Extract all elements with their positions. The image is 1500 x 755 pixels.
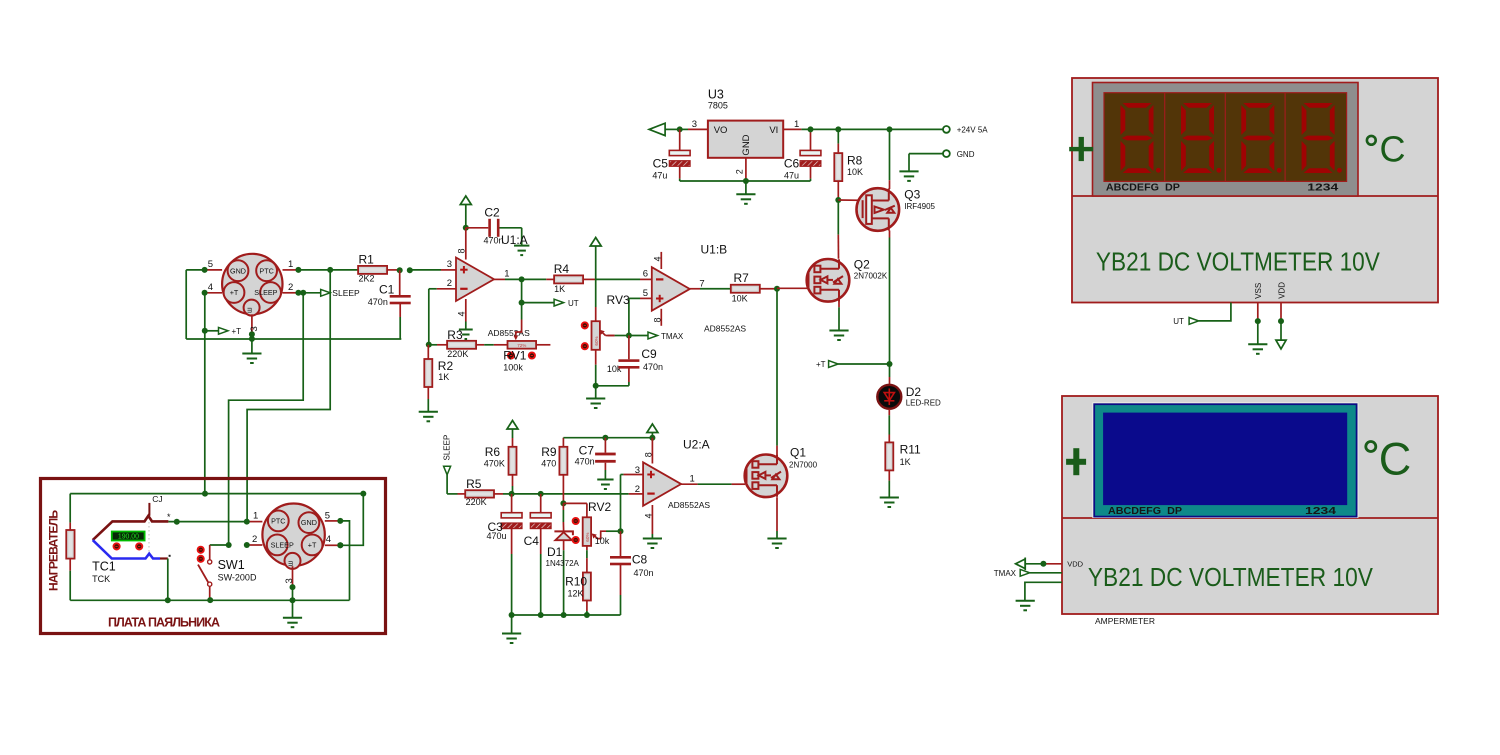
svg-text:GND: GND — [741, 134, 752, 155]
wire TC1 plus to connector pin1 — [168, 519, 246, 525]
svg-text:4: 4 — [457, 311, 467, 316]
svg-text:*: * — [167, 512, 171, 522]
potentiometer RV1 — [494, 303, 551, 373]
svg-text:SLEEP: SLEEP — [254, 288, 277, 297]
connector J2 (5-pin DIN on board) — [226, 504, 344, 591]
ground near GND terminal — [899, 171, 918, 181]
svg-text:3: 3 — [284, 578, 295, 583]
switch SW1 SW-200D — [198, 545, 257, 599]
svg-text:VSS: VSS — [1254, 283, 1263, 299]
svg-text:SW-200D: SW-200D — [218, 573, 257, 583]
wire pin5 to left loop — [186, 270, 204, 339]
svg-text:470u: 470u — [487, 531, 507, 541]
svg-text:C2: C2 — [484, 206, 500, 220]
svg-text:RV1: RV1 — [503, 349, 526, 363]
ground wire voltmeter 2 — [1016, 582, 1062, 610]
label YB21 DC VOLTMETER 10V (2) — [1088, 562, 1374, 592]
ground at C2 — [514, 228, 529, 255]
svg-text:TMAX: TMAX — [994, 569, 1017, 578]
label AMPERMETER — [1095, 616, 1155, 626]
svg-text:60%: 60% — [585, 532, 590, 541]
svg-text:НАГРЕВАТЕЛЬ: НАГРЕВАТЕЛЬ — [47, 510, 61, 591]
svg-text:1234: 1234 — [1307, 183, 1339, 194]
svg-text:3: 3 — [249, 326, 260, 331]
power arrow VCC (R6) — [507, 421, 518, 439]
capacitor C2 — [466, 206, 522, 246]
svg-text:10K: 10K — [847, 167, 863, 177]
svg-text:R9: R9 — [541, 445, 557, 459]
svg-text:60%: 60% — [594, 336, 599, 345]
thermocouple TC1 TCK — [92, 494, 171, 601]
svg-text:R1: R1 — [359, 253, 375, 267]
svg-text:U3: U3 — [708, 88, 724, 102]
svg-text:10K: 10K — [732, 293, 748, 303]
wire U3 ground bus — [680, 178, 811, 184]
svg-text:470n: 470n — [634, 568, 654, 578]
wire heater drive (Q3 source down) — [887, 238, 893, 378]
svg-text:VDD: VDD — [1277, 282, 1286, 299]
wire U1:A inverting input — [426, 289, 456, 348]
svg-text:U2:A: U2:A — [683, 438, 710, 452]
resistor R4 — [522, 262, 640, 294]
plus sign voltmeter 2 — [1066, 448, 1086, 475]
svg-text:2K2: 2K2 — [359, 274, 375, 284]
svg-text:R2: R2 — [438, 359, 454, 373]
svg-text:47u: 47u — [784, 170, 799, 180]
terminal UT — [522, 299, 579, 308]
svg-text:10k: 10k — [595, 536, 610, 546]
svg-text:C8: C8 — [632, 553, 648, 567]
svg-text:470n: 470n — [643, 362, 663, 372]
wire PTC trunk to lower board — [247, 270, 330, 522]
wire inverting net y=494 — [509, 491, 643, 497]
wire U2:A +input — [618, 475, 644, 535]
degree C label voltmeter 1 — [1367, 129, 1406, 170]
svg-text:C6: C6 — [784, 156, 800, 170]
svg-text:AD8552AS: AD8552AS — [668, 500, 710, 510]
zener diode D1 1N4372A — [546, 503, 580, 615]
svg-text:RV3: RV3 — [607, 293, 630, 307]
svg-text:1: 1 — [253, 511, 258, 522]
svg-text:4: 4 — [208, 282, 213, 293]
svg-text:TC1: TC1 — [92, 560, 116, 574]
wire board top net — [70, 491, 366, 549]
svg-text:4: 4 — [653, 256, 663, 261]
svg-text:R8: R8 — [847, 154, 863, 168]
capacitor C5 — [652, 129, 690, 181]
display pin labels — [1106, 183, 1339, 194]
resistor R9 — [541, 438, 567, 507]
resistor R7 — [731, 271, 780, 303]
svg-text:1: 1 — [288, 259, 293, 270]
resistor R10 — [565, 573, 591, 616]
svg-text:2N7002K: 2N7002K — [854, 272, 888, 281]
svg-text:1234: 1234 — [1305, 506, 1337, 517]
svg-text:ABCDEFG DP: ABCDEFG DP — [1106, 183, 1180, 194]
svg-text:+24V 5A: +24V 5A — [957, 126, 989, 135]
capacitor C3 — [487, 494, 523, 615]
svg-text:2: 2 — [252, 534, 257, 545]
resistor R11 — [885, 442, 921, 497]
svg-text:Q1: Q1 — [790, 446, 806, 460]
svg-text:C7: C7 — [579, 444, 595, 458]
ground under bus — [502, 615, 521, 643]
svg-text:1K: 1K — [900, 457, 911, 467]
svg-text:1K: 1K — [438, 372, 449, 382]
svg-text:4: 4 — [643, 513, 653, 518]
board box PLATA PAYALNIKA — [41, 479, 386, 634]
resistor R5 — [458, 477, 512, 507]
voltmeter 1 pins VSS VDD — [1254, 282, 1286, 324]
terminal GND — [909, 150, 975, 172]
potentiometer RV3 — [582, 293, 630, 389]
svg-text:2N7000: 2N7000 — [789, 461, 818, 470]
svg-text:5: 5 — [208, 259, 213, 270]
7-segment digits — [1121, 103, 1342, 173]
wire U1:B +input to RV3 wiper — [626, 298, 652, 338]
svg-text:AD8552AS: AD8552AS — [488, 328, 530, 338]
svg-text:VI: VI — [769, 125, 778, 136]
capacitor C8 — [610, 531, 654, 615]
voltmeter YB21 (ammeter display) — [1062, 396, 1438, 614]
svg-text:PTC: PTC — [259, 266, 273, 275]
svg-text:C: C — [1379, 434, 1412, 485]
svg-text:C5: C5 — [653, 156, 669, 170]
op-amp U1:B — [640, 243, 746, 334]
svg-text:10k: 10k — [607, 364, 622, 374]
svg-text:2: 2 — [447, 278, 452, 289]
svg-text:47u: 47u — [652, 170, 667, 180]
ground on board — [283, 600, 302, 627]
LED D2 LED-RED — [877, 377, 941, 442]
svg-text:YB21 DC VOLTMETER 10V: YB21 DC VOLTMETER 10V — [1096, 247, 1381, 277]
svg-text:8: 8 — [653, 317, 663, 322]
svg-text:4: 4 — [326, 534, 331, 545]
transistor Q3 IRF4905 — [838, 129, 935, 237]
svg-text:TMAX: TMAX — [661, 332, 684, 341]
svg-text:D1: D1 — [547, 545, 563, 559]
plus sign voltmeter 1 — [1069, 137, 1093, 161]
svg-text:R7: R7 — [734, 271, 750, 285]
svg-text:72%: 72% — [517, 343, 526, 348]
svg-text:5: 5 — [325, 511, 330, 522]
voltmeter YB21 (temperature display) — [1072, 78, 1438, 303]
svg-text:AD8552AS: AD8552AS — [704, 323, 746, 333]
wire GND bus y=339 — [186, 338, 401, 340]
svg-text:SLEEP: SLEEP — [271, 541, 294, 550]
transistor Q1 2N7000 — [745, 446, 818, 539]
wire +T trunk — [204, 293, 206, 494]
ground under R11 — [880, 498, 899, 508]
wire VCC rail U2A — [563, 435, 655, 441]
svg-text:12K: 12K — [568, 589, 584, 599]
LCD pin labels — [1108, 506, 1337, 517]
svg-text:SLEEP: SLEEP — [332, 288, 360, 298]
ground under U2:A pin4 — [643, 534, 662, 548]
capacitor C6 — [784, 129, 821, 181]
wire R7 node to Q1 drain — [776, 289, 778, 456]
terminal UT to voltmeter 1 — [1173, 303, 1231, 327]
svg-text:190.00: 190.00 — [118, 534, 139, 541]
terminal SLEEP (lower) — [443, 435, 458, 494]
svg-text:AMPERMETER: AMPERMETER — [1095, 616, 1155, 626]
svg-text:8: 8 — [643, 452, 653, 457]
svg-text:220K: 220K — [447, 349, 468, 359]
svg-text:CJ: CJ — [152, 494, 162, 504]
svg-text:C4: C4 — [524, 534, 540, 548]
wire R8 to Q2 drain — [837, 200, 839, 259]
svg-text:1N4372A: 1N4372A — [546, 559, 580, 568]
svg-text:C1: C1 — [379, 282, 395, 296]
node pin3 junction — [249, 331, 255, 342]
svg-text:ABCDEFG DP: ABCDEFG DP — [1108, 506, 1182, 517]
label YB21 DC VOLTMETER 10V (1) — [1096, 247, 1381, 277]
ground under C7 — [597, 480, 613, 490]
ground under R2 — [419, 412, 438, 422]
svg-text:3: 3 — [692, 119, 697, 130]
wire SLEEP trunk to lower board — [229, 293, 304, 545]
svg-text:1: 1 — [794, 119, 799, 130]
svg-text:IRF4905: IRF4905 — [904, 202, 935, 211]
svg-text:7805: 7805 — [708, 101, 728, 111]
svg-text:ш: ш — [247, 307, 254, 313]
svg-text:U1:A: U1:A — [501, 233, 528, 247]
svg-text:470: 470 — [541, 459, 556, 469]
capacitor C1 — [368, 270, 411, 339]
svg-text:R6: R6 — [485, 445, 501, 459]
svg-text:+T: +T — [816, 360, 826, 369]
terminal +T left — [202, 327, 241, 336]
resistor R8 — [834, 129, 863, 203]
resistor R2 — [424, 345, 453, 412]
power arrow VCC (RV3) — [590, 238, 601, 308]
ground under RV3 — [586, 386, 605, 408]
svg-text:220K: 220K — [466, 497, 487, 507]
svg-text:SLEEP: SLEEP — [443, 435, 452, 461]
power arrow VCC (U2:A) — [647, 424, 658, 438]
svg-text:ПЛАТА ПАЯЛЬНИКА: ПЛАТА ПАЯЛЬНИКА — [108, 616, 220, 630]
wire U2:A output to Q1 gate — [681, 474, 745, 485]
svg-text:D2: D2 — [906, 385, 922, 399]
svg-text:2: 2 — [288, 282, 293, 293]
svg-text:3: 3 — [447, 259, 452, 270]
degree C label voltmeter 2 — [1366, 434, 1412, 485]
svg-text:SW1: SW1 — [218, 558, 245, 572]
svg-text:100k: 100k — [503, 362, 523, 372]
regulator U3 7805 — [708, 88, 802, 179]
ground under VSS — [1248, 321, 1267, 354]
svg-text:R3: R3 — [447, 328, 463, 342]
resistor R3 — [429, 328, 494, 359]
svg-text:470n: 470n — [368, 297, 388, 307]
svg-text:7: 7 — [699, 278, 704, 289]
svg-text:1: 1 — [690, 474, 695, 485]
svg-text:ш: ш — [288, 560, 295, 566]
wire analog ground bus — [509, 612, 621, 618]
power arrow VCC (U1:A) — [460, 196, 471, 231]
svg-text:8: 8 — [457, 248, 467, 253]
svg-text:TCK: TCK — [92, 574, 110, 584]
svg-text:U1:B: U1:B — [701, 243, 728, 257]
wire U1:A output node — [494, 268, 525, 305]
svg-text:PTC: PTC — [271, 517, 285, 526]
op-amp U1:A — [447, 228, 530, 338]
svg-text:470n: 470n — [575, 457, 595, 467]
ground under J1 pin 3 — [242, 339, 261, 363]
capacitor C7 — [575, 438, 616, 480]
wire +24V rail — [801, 126, 943, 132]
svg-text:R10: R10 — [565, 575, 587, 589]
resistor R1 — [298, 253, 456, 284]
svg-text:+T: +T — [230, 288, 239, 297]
terminal +T right — [816, 360, 890, 369]
terminal TMAX — [629, 332, 684, 341]
svg-text:VO: VO — [714, 125, 728, 136]
svg-text:R11: R11 — [900, 442, 921, 456]
resistor R6 — [484, 438, 517, 494]
svg-text:UT: UT — [1173, 317, 1184, 326]
heater resistor — [66, 494, 74, 601]
svg-text:1K: 1K — [554, 284, 565, 294]
svg-text:RV2: RV2 — [588, 500, 611, 514]
power arrow VCC output (U3 VO) — [649, 119, 708, 136]
terminal TMAX to voltmeter 2 — [994, 569, 1062, 578]
svg-text:1: 1 — [504, 268, 509, 279]
svg-text:GND: GND — [957, 150, 975, 159]
svg-text:2: 2 — [734, 169, 744, 174]
junction dots connector — [202, 267, 334, 296]
svg-text:YB21 DC VOLTMETER 10V: YB21 DC VOLTMETER 10V — [1088, 562, 1374, 592]
terminal +24V 5A — [943, 126, 988, 135]
svg-text:C9: C9 — [641, 347, 657, 361]
ground under U3 — [736, 181, 755, 204]
ground at U1:A pin4 — [459, 322, 473, 340]
svg-text:VDD: VDD — [1067, 560, 1083, 569]
svg-text:Q3: Q3 — [904, 187, 920, 201]
svg-text:6: 6 — [643, 269, 648, 280]
svg-text:+T: +T — [308, 541, 317, 550]
capacitor C9 — [596, 336, 663, 386]
wire U1:B output — [690, 278, 731, 289]
connector J1 (5-pin DIN, iron cable top) — [205, 254, 299, 334]
power arrow down under VDD — [1276, 321, 1286, 349]
svg-text:UT: UT — [568, 299, 579, 308]
transistor Q2 2N7002K — [777, 257, 888, 330]
svg-text:C: C — [1380, 129, 1406, 170]
svg-text:R4: R4 — [554, 262, 570, 276]
potentiometer RV2 — [563, 500, 620, 573]
ground under Q2 — [829, 331, 848, 341]
voltmeter 2 VDD pin with power arrow — [1016, 558, 1084, 571]
svg-text:2: 2 — [635, 484, 640, 495]
svg-text:5: 5 — [643, 288, 648, 299]
svg-text:GND: GND — [230, 266, 246, 275]
svg-text:LED-RED: LED-RED — [906, 398, 941, 407]
svg-text:R5: R5 — [466, 477, 482, 491]
capacitor C4 — [524, 494, 552, 615]
svg-text:GND: GND — [301, 518, 317, 527]
svg-text:+T: +T — [232, 327, 242, 336]
terminal SLEEP — [303, 288, 360, 298]
svg-text:Q2: Q2 — [854, 257, 870, 271]
wire board bottom net — [70, 521, 349, 603]
svg-text:470K: 470K — [484, 459, 505, 469]
op-amp U2:A — [635, 438, 711, 535]
ground under Q1 — [767, 539, 786, 549]
